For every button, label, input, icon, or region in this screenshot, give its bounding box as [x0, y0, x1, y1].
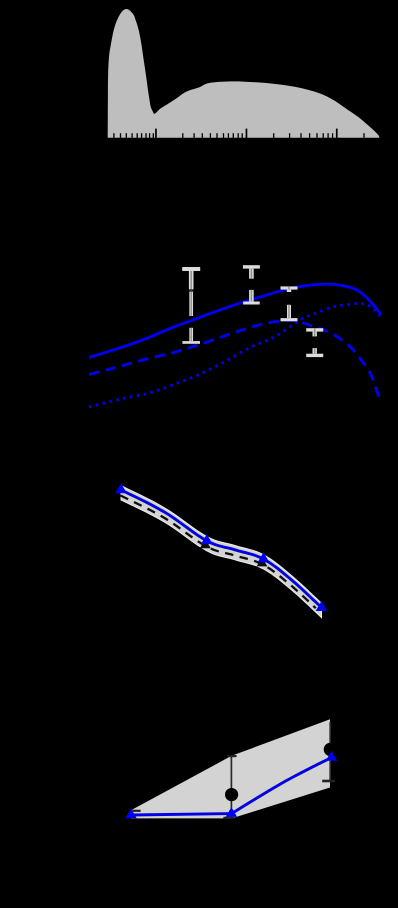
black dashed line [121, 496, 316, 609]
panel 4 gray polygon [131, 719, 330, 818]
dotted blue curve [89, 303, 380, 407]
error bar E3 [281, 286, 298, 321]
blue line [121, 490, 322, 608]
yellow underlay line [121, 490, 322, 608]
blue triangle markers [115, 483, 127, 493]
panel 1 distribution fill [108, 9, 381, 138]
dashed blue curve [89, 320, 380, 399]
major ticks [155, 129, 338, 138]
circle marker M2 [324, 743, 337, 756]
minor ticks [113, 133, 380, 138]
error bar E2 [243, 265, 260, 304]
circle marker M1 [225, 788, 238, 801]
blue triangle markers [125, 808, 136, 818]
blue line [131, 758, 332, 816]
panel 3 gray band [121, 486, 322, 618]
error bar M1 stem [230, 756, 232, 808]
solid blue curve [89, 284, 381, 357]
black triangle markers [200, 539, 211, 548]
error bar E1 [182, 267, 200, 344]
yellow underlay line [131, 758, 332, 816]
error bar M2 stem [329, 722, 331, 781]
error bar E4 [306, 328, 323, 357]
